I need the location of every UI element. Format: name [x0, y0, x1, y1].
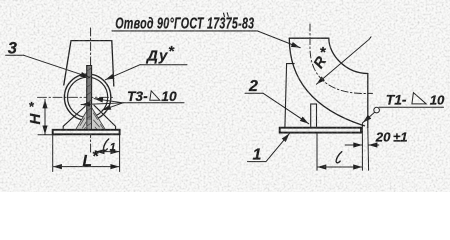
T3 triangle symbol — [150, 91, 160, 100]
support plate item3 (edge view, hatched strip) — [87, 66, 92, 130]
pipe outer circle — [64, 74, 110, 120]
dim L extension (from rib) — [316, 133, 318, 171]
T1 leader circle — [374, 107, 380, 113]
pipe inner circle — [68, 77, 108, 117]
dim 20±1 extension left (base end) — [361, 123, 363, 170]
title underline leader to elbow — [112, 31, 300, 48]
dim H*: extension bottom — [38, 134, 62, 136]
dim 20 arrows outside — [345, 144, 362, 146]
right gusset outline — [94, 105, 116, 130]
dim L* line — [53, 166, 120, 168]
base plate (right view) — [280, 128, 361, 133]
left gusset outline — [63, 107, 85, 130]
right section gusset (dark wedge) — [92, 108, 106, 130]
support plate (right view left edge) — [285, 64, 294, 128]
elbow top face — [289, 37, 329, 39]
title: Отвод 90 ГОСТ 17375-83 — [115, 15, 254, 33]
dim H* line — [44, 99, 46, 134]
leader 3 — [23, 55, 89, 77]
elbow outer arc — [289, 38, 364, 126]
leader Dy — [105, 65, 140, 80]
elbow vertical leg (top rectangle) — [64, 41, 114, 86]
dim l1 line — [96, 151, 120, 153]
leader 1 — [266, 133, 290, 161]
title ditto artifact marks — [224, 13, 229, 17]
elbow centerline arc — [310, 24, 373, 94]
T3 leader a (to plate right) — [94, 99, 123, 103]
vertical centerline — [90, 28, 92, 153]
plate hatch ticks — [87, 68, 91, 126]
base plate (left view) — [53, 130, 120, 135]
dim l1 + L* extensions — [53, 134, 120, 171]
T3 leader c (to right gusset) — [102, 103, 123, 110]
horizontal centerline — [38, 96, 114, 98]
dim L line — [317, 166, 362, 168]
T1 triangle symbol — [412, 93, 426, 104]
T1 leader — [363, 112, 375, 122]
dim 20±1 extension right (pipe face) — [367, 128, 370, 171]
left section gusset (dark wedge) — [76, 111, 87, 130]
R* radius leader — [316, 37, 371, 84]
elbow inner arc — [329, 38, 368, 73]
label l1 (cursive ell + subscript) — [103, 139, 108, 150]
elbow right face — [367, 74, 369, 128]
paper grain overlay — [0, 0, 450, 192]
rib item2 — [311, 104, 317, 128]
leader 2 — [263, 93, 309, 124]
T3 leader b (across to plate left) — [81, 103, 123, 105]
label l cursive (right view) — [336, 152, 342, 163]
